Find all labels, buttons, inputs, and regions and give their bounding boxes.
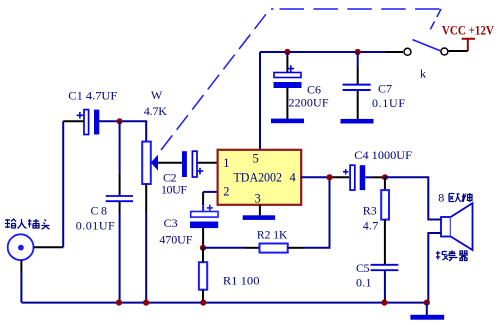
svg-text:10UF: 10UF xyxy=(161,182,187,196)
svg-text:2: 2 xyxy=(223,184,229,198)
svg-text:k: k xyxy=(420,67,426,81)
svg-text:C4 1000UF: C4 1000UF xyxy=(354,148,412,162)
wire C6 bottom stub xyxy=(286,88,288,119)
wire R3 to C5 xyxy=(384,220,386,264)
dashed mechanical link diagonal xyxy=(161,9,270,150)
姆 xyxy=(462,193,472,202)
svg-text:C5: C5 xyxy=(356,261,370,275)
capacitor C8 xyxy=(106,196,133,201)
wire node to speaker xyxy=(385,177,441,219)
svg-text:VCC +12V: VCC +12V xyxy=(442,23,495,38)
svg-text:470UF: 470UF xyxy=(159,233,192,247)
wire C4 to speaker node xyxy=(365,176,385,178)
bottom rail xyxy=(22,302,427,304)
wire C7 stub top xyxy=(357,52,359,84)
wire top rail xyxy=(260,51,403,53)
svg-text:0.01UF: 0.01UF xyxy=(76,218,115,232)
label C2 10UF xyxy=(161,170,187,196)
svg-text:4: 4 xyxy=(290,171,297,185)
label R3 4.7 xyxy=(363,204,379,233)
svg-text:5: 5 xyxy=(253,152,259,166)
node pot bottom xyxy=(143,300,149,306)
svg-text:2200UF: 2200UF xyxy=(289,96,329,110)
label C8 0.01UF xyxy=(76,204,115,233)
wire R1 top stub xyxy=(202,248,204,262)
svg-text:4.7: 4.7 xyxy=(363,219,379,233)
svg-text:C6: C6 xyxy=(307,83,321,97)
node C3/R1/R2 xyxy=(200,245,206,251)
器 xyxy=(459,251,468,261)
wire C8 top branch xyxy=(119,121,121,195)
ground speaker xyxy=(410,315,444,320)
wire C5 bottom xyxy=(384,270,386,302)
capacitor C3 xyxy=(190,205,218,228)
wire C7 bottom stub xyxy=(357,91,359,119)
input jack xyxy=(8,234,34,260)
ground C7 xyxy=(341,119,374,124)
扬 xyxy=(436,251,448,260)
capacitor C1 xyxy=(77,110,100,135)
wire C2 to pin1 xyxy=(197,162,218,164)
dashed mechanical link right drop xyxy=(430,9,442,31)
op-amp U1 TDA2002 xyxy=(218,150,302,205)
输 xyxy=(5,219,16,228)
wire pot bottom xyxy=(145,184,147,303)
node C6 top xyxy=(284,49,290,55)
wire C1 to pot xyxy=(99,121,146,141)
node C8 bottom xyxy=(116,300,122,306)
svg-text:TDA2002: TDA2002 xyxy=(234,170,283,185)
ground pin3 xyxy=(243,215,275,220)
capacitor C4 xyxy=(343,165,365,190)
label C7 0.1UF xyxy=(372,82,405,111)
node C1/C8 junction xyxy=(117,118,123,124)
resistor R3 xyxy=(381,190,389,220)
wire switch to VCC xyxy=(449,50,468,52)
label C3 470UF xyxy=(159,216,192,247)
wire node to R2 xyxy=(203,247,260,249)
label W 4.7K xyxy=(144,88,167,118)
dashed mechanical link horizontal xyxy=(271,8,441,10)
svg-text:8: 8 xyxy=(438,191,444,205)
svg-text:C3: C3 xyxy=(164,216,178,230)
svg-text:W: W xyxy=(151,88,163,102)
node C4/R3/speaker xyxy=(382,174,388,180)
svg-text:1: 1 xyxy=(223,156,229,170)
欧 xyxy=(449,194,461,202)
wire C6 top stub xyxy=(286,52,288,73)
resistor R1 xyxy=(199,262,207,290)
label 8 欧姆 xyxy=(438,191,472,205)
label 扬声器 xyxy=(436,251,468,262)
wire pin3 stub xyxy=(259,205,261,216)
wire jack to C1 xyxy=(34,121,84,247)
resistor R2 xyxy=(260,244,288,253)
wire speaker bottom xyxy=(428,233,441,303)
wire pin5 vertical xyxy=(259,52,261,149)
svg-text:0.1UF: 0.1UF xyxy=(372,96,405,110)
svg-text:0.1: 0.1 xyxy=(356,276,372,290)
node C5 bottom xyxy=(381,300,387,306)
speaker xyxy=(441,203,473,250)
VCC +12V supply symbol xyxy=(462,39,475,51)
node speaker ground xyxy=(424,300,430,306)
node R1 bottom xyxy=(200,300,206,306)
label 输入插头 xyxy=(5,219,50,229)
label C6 2200UF xyxy=(289,83,329,110)
svg-text:3: 3 xyxy=(255,191,261,205)
label C5 0.1 xyxy=(356,261,372,290)
插 xyxy=(28,219,39,228)
svg-text:C1 4.7UF: C1 4.7UF xyxy=(68,88,117,102)
svg-text:R1 100: R1 100 xyxy=(223,273,260,287)
声 xyxy=(449,251,458,262)
node C7 top xyxy=(355,49,361,55)
wire C8 bottom branch xyxy=(119,201,121,302)
入 xyxy=(18,219,27,229)
capacitor C5 xyxy=(371,265,399,270)
potentiometer W xyxy=(142,142,158,184)
wire speaker ground stub xyxy=(426,303,428,315)
capacitor C6 xyxy=(274,65,302,88)
wire pin4 to C4 xyxy=(301,176,350,178)
wire R2 to pin4 riser xyxy=(288,177,330,248)
svg-text:R2 1K: R2 1K xyxy=(257,228,288,242)
头 xyxy=(42,220,50,230)
switch k xyxy=(404,40,448,56)
wire R1 bottom stub xyxy=(202,290,204,303)
wire R3 top stub xyxy=(384,177,386,190)
wire jack bottom xyxy=(20,260,22,302)
wire wiper to C2 xyxy=(158,162,182,164)
wire pin2 to C3 xyxy=(203,192,216,212)
svg-text:R3: R3 xyxy=(363,204,377,218)
wire C3 bottom xyxy=(202,227,204,248)
svg-text:C7: C7 xyxy=(378,82,392,96)
capacitor C7 xyxy=(343,85,371,90)
capacitor C2 xyxy=(182,151,203,177)
ground C6 xyxy=(271,119,304,124)
svg-text:4.7K: 4.7K xyxy=(144,104,167,118)
node pin4/R2 xyxy=(326,174,332,180)
